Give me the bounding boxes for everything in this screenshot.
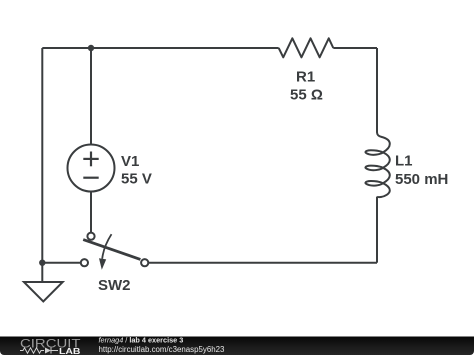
footer bar [0,337,474,355]
wire right bottom [376,197,378,263]
node junction top [88,45,94,51]
wire switch left to ground node [42,262,80,264]
ground [24,282,63,302]
svg-text:LAB: LAB [59,346,81,355]
wire bottom [149,262,377,264]
svg-text:R1: R1 [296,69,315,86]
resistor R1 [279,38,334,57]
svg-text:L1: L1 [395,153,413,170]
wire right top [376,48,378,133]
wire V1 to switch [90,192,92,233]
svg-text:550 mH: 550 mH [395,171,448,188]
node junction ground [39,260,45,266]
logo zigzag and diode [20,348,58,354]
wire top-left segment [42,47,278,49]
wire to ground [41,263,43,282]
wire left vertical [41,48,43,263]
voltage source V1 [68,145,115,192]
svg-text:SW2: SW2 [98,277,131,294]
switch SW2 [81,233,148,267]
svg-text:V1: V1 [121,153,139,170]
svg-text:http://circuitlab.com/c3enasp5: http://circuitlab.com/c3enasp5y6h23 [99,345,225,354]
wire top-right segment [333,47,377,49]
inductor L1 [365,132,389,197]
wire V1 branch top [90,48,92,145]
svg-text:fernag4 / lab 4 exercise 3: fernag4 / lab 4 exercise 3 [99,335,184,344]
svg-text:55 V: 55 V [121,171,152,188]
svg-text:55 Ω: 55 Ω [290,87,323,104]
